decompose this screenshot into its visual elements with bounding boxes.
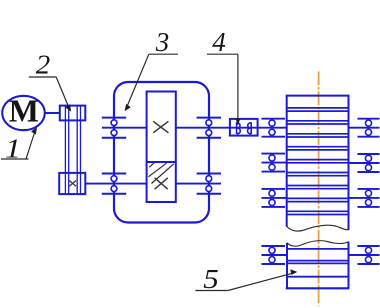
svg-text:4: 4: [212, 27, 226, 57]
svg-text:M: M: [9, 92, 39, 128]
svg-text:2: 2: [36, 50, 51, 80]
svg-text:5: 5: [203, 264, 219, 294]
svg-text:3: 3: [155, 27, 170, 57]
svg-text:1: 1: [5, 134, 21, 164]
